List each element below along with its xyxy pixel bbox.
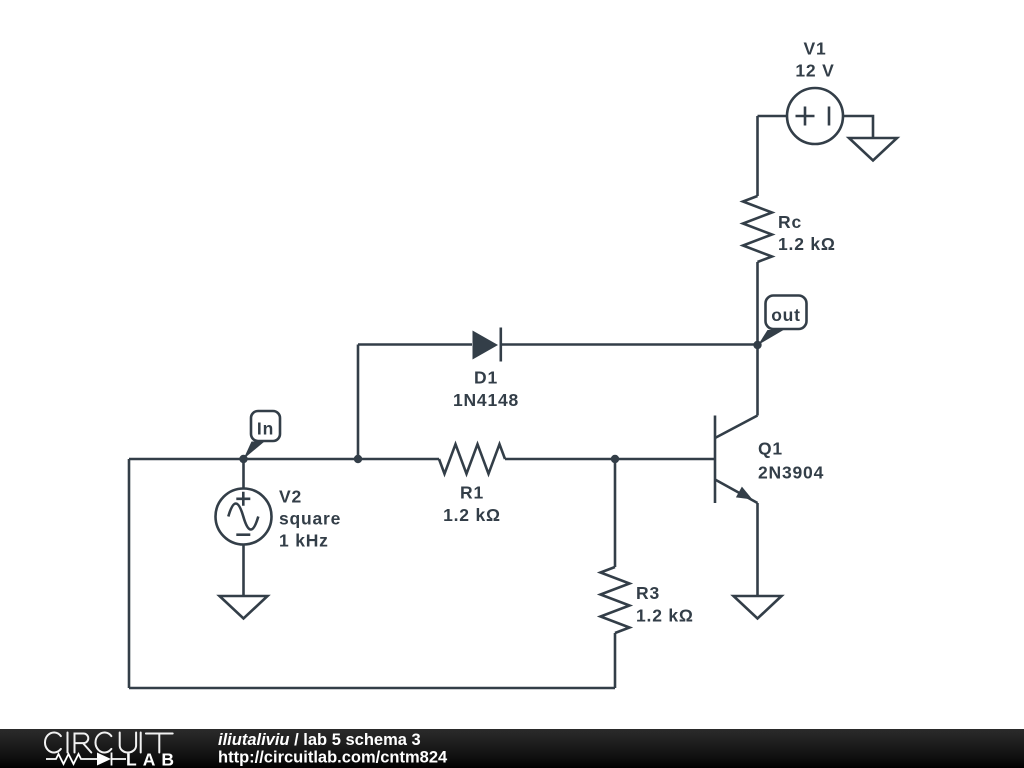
svg-text:1 kHz: 1 kHz — [279, 531, 329, 551]
svg-text:R3: R3 — [636, 583, 660, 603]
svg-text:1N4148: 1N4148 — [453, 390, 519, 410]
wire node B to Q1 base — [615, 458, 715, 461]
wire In node to V2 — [242, 459, 245, 489]
svg-text:D1: D1 — [474, 368, 498, 388]
svg-text:R1: R1 — [460, 483, 484, 503]
CircuitLab logo wordmark CIRCUIT — [45, 733, 173, 753]
svg-text:2N3904: 2N3904 — [758, 463, 824, 483]
node B junction dot — [611, 455, 619, 463]
CircuitLab logo resistor-diode glyph — [46, 753, 126, 766]
wire diode row left vertical — [357, 345, 360, 460]
node In junction dot — [239, 455, 247, 463]
footer bar — [0, 729, 1024, 768]
node out flag box — [766, 296, 807, 330]
svg-text:1.2 kΩ: 1.2 kΩ — [636, 606, 694, 626]
svg-text:LAB: LAB — [126, 750, 180, 768]
resistor R3 — [601, 567, 630, 633]
node D junction dot — [354, 455, 362, 463]
svg-text:V2: V2 — [279, 487, 302, 507]
ground at Q1 emitter — [734, 596, 782, 619]
wire Q1 emitter to ground — [756, 503, 759, 596]
voltage source V2 — [216, 489, 272, 545]
node In flag tail — [244, 442, 265, 460]
ground at V2 — [220, 596, 268, 619]
wire main row left — [129, 458, 439, 461]
svg-text:square: square — [279, 509, 341, 529]
voltage source V1 — [787, 88, 843, 144]
wire left rail — [128, 459, 131, 688]
diode D1 — [473, 328, 501, 362]
svg-text:In: In — [257, 419, 274, 439]
svg-text:iliutaliviu / lab 5 schema 3: iliutaliviu / lab 5 schema 3 — [218, 731, 421, 749]
svg-text:1.2 kΩ: 1.2 kΩ — [443, 505, 501, 525]
node out flag tail — [758, 330, 784, 345]
svg-text:12 V: 12 V — [795, 61, 834, 81]
wire V2 to ground — [242, 545, 245, 597]
svg-text:Q1: Q1 — [758, 439, 783, 459]
svg-text:V1: V1 — [803, 39, 826, 59]
node In flag box — [251, 411, 280, 441]
transistor Q1 — [715, 416, 758, 504]
node out junction dot — [753, 341, 761, 349]
wire R1 to node B — [505, 458, 615, 461]
wire diode cathode to node out — [501, 343, 758, 346]
wire R3 bottom lead — [614, 633, 617, 688]
wire R3 top lead — [614, 459, 617, 567]
svg-text:1.2 kΩ: 1.2 kΩ — [778, 234, 836, 254]
ground at V1 — [849, 138, 897, 161]
svg-text:Rc: Rc — [778, 212, 802, 232]
wire V1 to Rc — [756, 116, 759, 196]
resistor R1 — [439, 444, 505, 474]
wire V1 left lead — [758, 115, 788, 118]
wire diode anode — [358, 343, 472, 346]
wire bottom rail — [129, 687, 615, 690]
wire V1 right lead — [843, 116, 873, 138]
wire Rc to node out — [756, 262, 759, 345]
wire node out to Q1 collector — [756, 345, 759, 416]
resistor Rc — [743, 196, 772, 262]
svg-text:http://circuitlab.com/cntm824: http://circuitlab.com/cntm824 — [218, 749, 448, 767]
svg-text:out: out — [771, 305, 801, 325]
